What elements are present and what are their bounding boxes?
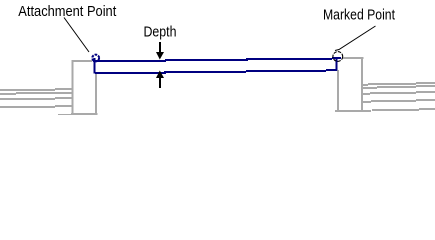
svg-text:Depth: Depth (144, 24, 177, 41)
svg-text:Attachment Point: Attachment Point (18, 3, 117, 20)
svg-text:Marked Point: Marked Point (323, 7, 396, 24)
